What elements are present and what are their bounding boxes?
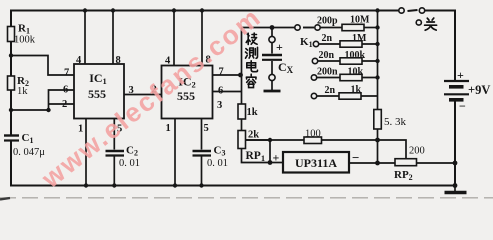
wire pin4 riser IC2 bbox=[173, 11, 175, 66]
svg-text:555: 555 bbox=[88, 87, 106, 101]
node output-right rail junction bbox=[453, 161, 458, 166]
battery +9V bbox=[444, 81, 469, 100]
potentiometer RP1 2k bbox=[238, 131, 246, 149]
svg-text:20n: 20n bbox=[319, 50, 335, 61]
svg-text:0. 01: 0. 01 bbox=[207, 158, 228, 169]
ground bbox=[454, 186, 456, 192]
wire pin1 riser IC1 bbox=[85, 119, 87, 186]
wire top rail right segment bbox=[425, 10, 455, 12]
switch K1 blade bbox=[303, 27, 314, 29]
label measured-capacitor (Chinese vertical) bbox=[246, 33, 258, 88]
resistor R1 bbox=[8, 27, 15, 42]
capacitor C3 bbox=[193, 151, 212, 156]
node left rail junction bbox=[9, 108, 13, 112]
svg-text:10M: 10M bbox=[350, 15, 370, 26]
wire row3 bbox=[318, 60, 378, 62]
wire 1k to RP1 bbox=[241, 119, 243, 131]
wire pin5 riser IC1 to C2 bbox=[113, 119, 115, 186]
svg-text:UP311A: UP311A bbox=[295, 156, 337, 170]
svg-text:+: + bbox=[273, 151, 280, 165]
node bottom right corner bbox=[453, 183, 458, 188]
node row2 bus bbox=[375, 42, 379, 46]
node output-5.3k junction bbox=[375, 161, 380, 166]
wire bus to 5.3k and down bbox=[377, 96, 379, 163]
node Cx top junction bbox=[270, 25, 275, 30]
wire pin8 riser IC1 bbox=[112, 11, 114, 65]
switch K1 row3 contact bbox=[312, 58, 317, 63]
svg-text:+: + bbox=[457, 68, 464, 82]
svg-text:+9V: +9V bbox=[468, 83, 490, 97]
svg-text:200n: 200n bbox=[317, 67, 338, 78]
svg-text:−: − bbox=[459, 99, 466, 113]
switch K1 row1 contact bbox=[315, 25, 320, 30]
svg-text:2n: 2n bbox=[325, 85, 336, 96]
wire bottom rail bbox=[11, 185, 455, 187]
wire pin5 riser IC2 to C3 bbox=[201, 119, 203, 186]
node row4 bus bbox=[375, 75, 379, 79]
wire top rail bbox=[11, 10, 399, 12]
wire IC2 pin6 to timing node bbox=[213, 91, 242, 93]
svg-text:1: 1 bbox=[166, 123, 171, 134]
node pin1 bottom bbox=[84, 183, 88, 187]
svg-text:2k: 2k bbox=[248, 130, 259, 141]
node row3 bus bbox=[375, 59, 379, 63]
node 5.3k-100 junction bbox=[375, 138, 380, 143]
switch K1 row4 contact bbox=[311, 75, 316, 80]
op-amp U2 IC2 555 bbox=[162, 66, 213, 119]
switch K1 wiper contact bbox=[295, 25, 300, 30]
resistor 1M bbox=[340, 41, 362, 47]
resistor 100k bbox=[340, 58, 362, 64]
wire row2 bbox=[319, 43, 378, 45]
svg-text:3: 3 bbox=[217, 100, 222, 111]
svg-text:1M: 1M bbox=[352, 33, 367, 44]
wire RP1 bottom loop bbox=[242, 149, 271, 163]
resistor R2 bbox=[8, 76, 15, 90]
svg-text:0. 01: 0. 01 bbox=[119, 158, 140, 169]
terminal Cx bottom bbox=[269, 74, 275, 80]
node C2 bottom bbox=[112, 183, 116, 187]
switch guan on-off bbox=[399, 8, 404, 13]
node row1 bus bbox=[375, 25, 379, 29]
svg-text:4: 4 bbox=[76, 55, 82, 66]
svg-text:100k: 100k bbox=[345, 50, 366, 61]
node tie junction bbox=[46, 108, 50, 112]
svg-text:1k: 1k bbox=[247, 107, 258, 118]
wire junction to pin7 IC1 bbox=[11, 56, 74, 76]
page corner mark bbox=[0, 198, 10, 200]
svg-text:5: 5 bbox=[204, 123, 209, 134]
node pin4 IC2 top bbox=[172, 8, 176, 12]
range selector bus bbox=[377, 11, 379, 97]
node pin8 IC2 top bbox=[200, 8, 204, 12]
wire pin6-pin2 tie bbox=[49, 90, 75, 110]
svg-text:6: 6 bbox=[63, 85, 68, 96]
svg-text:2: 2 bbox=[62, 99, 67, 110]
capacitor C1 bbox=[4, 136, 19, 141]
wire IC1 pin3 to IC2 pin2 bbox=[124, 94, 162, 96]
node C3 bottom bbox=[199, 183, 203, 187]
wire row4 bbox=[317, 77, 378, 79]
wire IC2 pin7 to timing node bbox=[213, 74, 242, 76]
svg-text:1k: 1k bbox=[17, 86, 28, 97]
wire timing node vertical bbox=[241, 28, 243, 105]
wire 100 line bbox=[246, 139, 378, 141]
wire pin8 riser IC2 bbox=[201, 11, 203, 66]
wire pin4 riser IC1 bbox=[84, 11, 86, 65]
page edge line bbox=[0, 197, 493, 199]
svg-text:7: 7 bbox=[64, 68, 69, 79]
svg-text:+: + bbox=[276, 40, 283, 54]
potentiometer RP2 200 bbox=[395, 159, 417, 166]
svg-text:5. 3k: 5. 3k bbox=[384, 116, 407, 128]
wire row5 bbox=[317, 95, 378, 97]
node R1-R2 junction bbox=[9, 53, 13, 57]
wire RP1 wiper to comparator node bbox=[246, 140, 271, 163]
char rong bbox=[246, 74, 256, 87]
switch K1 row5 contact bbox=[311, 93, 316, 98]
node bus top bbox=[375, 8, 379, 12]
wire left rail to tie bbox=[11, 109, 49, 111]
wire left rail bbox=[10, 11, 12, 186]
wire output line bbox=[349, 162, 455, 164]
wire pin1 riser IC2 bbox=[174, 119, 176, 186]
wire row1 to resistor bbox=[320, 27, 342, 29]
capacitor C2 bbox=[106, 151, 125, 156]
char guan bbox=[425, 18, 437, 30]
wire right rail bbox=[454, 11, 456, 186]
char dian bbox=[247, 61, 258, 72]
node pin8 top bbox=[111, 8, 115, 12]
resistor 10M bbox=[342, 24, 364, 30]
switch K1 row2 contact bbox=[313, 41, 318, 46]
node pin4 top bbox=[83, 8, 87, 12]
node pin1 IC2 bottom bbox=[173, 183, 177, 187]
svg-text:1k: 1k bbox=[351, 85, 362, 96]
svg-text:100: 100 bbox=[305, 129, 321, 140]
capacitor Cx under test bbox=[271, 28, 273, 37]
resistor 10k bbox=[340, 74, 362, 80]
node wiper-100 junction bbox=[268, 138, 272, 142]
wire plus input bbox=[270, 162, 283, 164]
wire range row 1 common bbox=[242, 27, 295, 29]
char bei bbox=[246, 33, 257, 45]
op-amp U1 IC1 555 bbox=[74, 64, 124, 119]
svg-text:0. 047μ: 0. 047μ bbox=[13, 147, 45, 158]
Cx end bar bbox=[264, 90, 281, 93]
terminal Cx top bbox=[269, 36, 275, 42]
svg-text:200: 200 bbox=[409, 146, 425, 157]
resistor 5.3k bbox=[374, 110, 382, 130]
wire row1 to bus bbox=[364, 27, 378, 29]
resistor 1k (discharge) bbox=[238, 104, 246, 119]
wire RP2 wiper to 5.3k node bbox=[378, 140, 407, 159]
svg-text:8: 8 bbox=[116, 55, 121, 66]
node plus-input junction bbox=[268, 160, 273, 165]
svg-text:200p: 200p bbox=[317, 16, 338, 27]
svg-text:2n: 2n bbox=[322, 33, 333, 44]
svg-text:100k: 100k bbox=[14, 35, 36, 46]
node pin7 junction bbox=[238, 73, 243, 78]
comparator U3 UP311A bbox=[283, 152, 349, 173]
resistor 100 bbox=[304, 137, 322, 144]
switch label circle bbox=[416, 20, 421, 25]
char ce bbox=[246, 47, 258, 58]
resistor 1k range bbox=[339, 93, 361, 99]
svg-text:10k: 10k bbox=[348, 67, 364, 78]
